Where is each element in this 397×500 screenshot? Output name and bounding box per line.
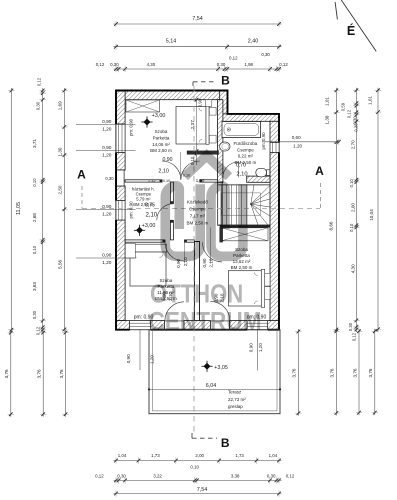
dim bottom openings row bbox=[114, 460, 282, 462]
svg-text:0,12: 0,12 bbox=[95, 473, 104, 478]
svg-text:3,38: 3,38 bbox=[231, 473, 240, 478]
svg-text:0,12: 0,12 bbox=[36, 326, 41, 335]
partition haztartasi east (lower) bbox=[170, 220, 173, 240]
double door top room/hall bbox=[162, 161, 181, 180]
svg-text:1,20: 1,20 bbox=[102, 212, 112, 218]
terrace door right arc bbox=[210, 301, 230, 321]
svg-text:0,12: 0,12 bbox=[347, 109, 352, 118]
svg-text:0,12: 0,12 bbox=[37, 77, 42, 86]
svg-text:1,69: 1,69 bbox=[58, 101, 63, 110]
svg-text:0,10: 0,10 bbox=[190, 464, 199, 469]
dim terrace right 3,76 bbox=[297, 329, 299, 416]
svg-text:1,73: 1,73 bbox=[151, 453, 160, 458]
svg-text:BM 2,50 m: BM 2,50 m bbox=[231, 265, 253, 270]
staircase bbox=[221, 185, 223, 225]
label double door bbox=[180, 152, 182, 176]
wall: bathroom west wall bbox=[218, 100, 223, 183]
toilet bbox=[267, 170, 270, 176]
svg-text:pm: 0,90: pm: 0,90 bbox=[129, 118, 134, 136]
svg-text:3,71: 3,71 bbox=[32, 139, 37, 148]
svg-text:0,75: 0,75 bbox=[145, 203, 155, 209]
dim left terrace 3,76 c bbox=[65, 330, 67, 417]
svg-text:2,68: 2,68 bbox=[32, 213, 37, 222]
svg-text:2,50: 2,50 bbox=[58, 185, 63, 194]
svg-text:0,90: 0,90 bbox=[202, 258, 207, 267]
svg-text:5,56: 5,56 bbox=[58, 259, 63, 268]
svg-text:A: A bbox=[77, 168, 86, 182]
dim left 11,05 bbox=[10, 88, 12, 332]
dim bottom 7,54 bbox=[114, 493, 282, 495]
svg-text:7,54: 7,54 bbox=[192, 16, 203, 22]
svg-text:2,10: 2,10 bbox=[158, 168, 169, 174]
svg-text:11,05: 11,05 bbox=[16, 202, 22, 215]
level marker +3,05 terrace bbox=[204, 363, 211, 370]
svg-text:14,06 m²: 14,06 m² bbox=[152, 142, 170, 147]
svg-text:0,90: 0,90 bbox=[102, 204, 112, 210]
dim right col 1,01/1,38/8,66 bbox=[335, 88, 337, 332]
level marker +3,00 haztartasi bbox=[136, 227, 143, 234]
svg-text:0,12: 0,12 bbox=[286, 473, 295, 478]
bed nook stub wall bbox=[187, 151, 219, 155]
svg-text:2,10: 2,10 bbox=[236, 171, 247, 177]
door bottom-right room bbox=[203, 242, 223, 262]
terrace door threshold left bbox=[165, 320, 185, 322]
bed bottom-right room bbox=[228, 271, 261, 306]
door bottom-left room bbox=[165, 242, 184, 261]
svg-text:6,22 m²: 6,22 m² bbox=[238, 154, 254, 159]
partition hall east / stair west wall bbox=[218, 182, 223, 225]
svg-text:2,00: 2,00 bbox=[195, 453, 204, 458]
dim bath window 0,60/1,20 bbox=[262, 141, 339, 143]
partition hall north (right seg) bbox=[200, 180, 218, 182]
svg-text:Terasz: Terasz bbox=[228, 390, 242, 395]
wall: left exterior wall segments bbox=[116, 91, 125, 125]
svg-text:0,70: 0,70 bbox=[236, 162, 246, 168]
below-wall window dim right bbox=[257, 330, 259, 371]
interior dim 2,37 bbox=[196, 100, 198, 165]
svg-text:0,30: 0,30 bbox=[348, 322, 353, 331]
dim right terrace 3,76 b bbox=[358, 329, 360, 415]
dim top 7,54 bbox=[114, 23, 282, 25]
svg-text:6,04: 6,04 bbox=[206, 383, 217, 389]
svg-text:3,63: 3,63 bbox=[32, 282, 37, 291]
svg-text:CENTRUM: CENTRUM bbox=[149, 308, 262, 337]
svg-text:0,90: 0,90 bbox=[248, 343, 253, 352]
svg-text:0,10: 0,10 bbox=[163, 179, 170, 183]
dim terrace 6,04 bbox=[149, 388, 280, 390]
svg-text:0,30: 0,30 bbox=[353, 116, 358, 125]
svg-text:1,20: 1,20 bbox=[102, 260, 112, 266]
svg-text:1,98: 1,98 bbox=[244, 62, 253, 67]
svg-text:3,76: 3,76 bbox=[330, 368, 335, 377]
dim right terrace 3,76 a bbox=[335, 329, 337, 416]
svg-text:2,37: 2,37 bbox=[190, 120, 195, 129]
window bottom wall left bbox=[130, 320, 151, 331]
wall: right exterior wall segments bbox=[270, 121, 279, 142]
below-wall window dim left bbox=[139, 330, 141, 370]
dim left windows chain bbox=[63, 88, 65, 332]
svg-text:0,59: 0,59 bbox=[341, 102, 346, 111]
dim left terrace 3,76 b bbox=[42, 330, 44, 417]
svg-text:0,90: 0,90 bbox=[198, 98, 203, 107]
svg-text:0,30: 0,30 bbox=[261, 52, 270, 57]
svg-text:0,90: 0,90 bbox=[102, 145, 112, 151]
svg-text:0,30: 0,30 bbox=[117, 473, 126, 478]
door haztartasi bbox=[157, 204, 174, 221]
svg-text:0,90: 0,90 bbox=[162, 157, 172, 163]
svg-text:+3,00: +3,00 bbox=[152, 113, 166, 119]
svg-text:5,14: 5,14 bbox=[166, 39, 177, 45]
svg-text:1,38: 1,38 bbox=[325, 115, 330, 124]
wardrobe top-left room bbox=[126, 100, 160, 112]
north arrow bbox=[341, 0, 376, 51]
svg-text:1,01: 1,01 bbox=[368, 96, 373, 105]
svg-text:3,22: 3,22 bbox=[153, 473, 162, 478]
svg-text:Parketta: Parketta bbox=[153, 135, 170, 140]
partition bottom-left room north bbox=[125, 240, 165, 242]
central wall between lower rooms bbox=[195, 242, 200, 321]
svg-text:2,42: 2,42 bbox=[148, 179, 155, 183]
svg-text:A: A bbox=[315, 164, 324, 178]
svg-text:2,40: 2,40 bbox=[248, 39, 259, 45]
nightstand top room bbox=[206, 100, 212, 107]
svg-text:22,73 m²: 22,73 m² bbox=[228, 397, 246, 402]
partition haztartasi east (upper) bbox=[170, 182, 173, 204]
svg-text:7,54: 7,54 bbox=[197, 487, 208, 493]
terrace door left arc bbox=[165, 302, 184, 321]
svg-text:0,90: 0,90 bbox=[102, 119, 112, 125]
svg-text:+3,00: +3,00 bbox=[142, 223, 156, 229]
svg-text:0,30: 0,30 bbox=[105, 176, 114, 181]
wall: top exterior wall bbox=[116, 91, 228, 100]
level marker +3,00 top room bbox=[144, 119, 151, 126]
svg-text:4,30: 4,30 bbox=[147, 62, 156, 67]
svg-text:É: É bbox=[347, 23, 355, 38]
svg-text:0,10: 0,10 bbox=[32, 178, 37, 187]
wall: notch step wall bbox=[220, 91, 228, 114]
window right wall (bathroom) bbox=[269, 143, 280, 153]
svg-text:0,12: 0,12 bbox=[352, 332, 357, 341]
svg-text:1,30: 1,30 bbox=[196, 178, 205, 183]
nightstand bottom-left bbox=[125, 244, 135, 259]
svg-text:0,60: 0,60 bbox=[292, 135, 301, 140]
svg-text:1,04: 1,04 bbox=[269, 453, 278, 458]
section line A (horizontal) bbox=[82, 208, 320, 210]
svg-text:Fürdőszoba: Fürdőszoba bbox=[234, 141, 258, 146]
svg-text:0,30: 0,30 bbox=[110, 62, 119, 67]
wardrobe bottom-right room bbox=[222, 228, 269, 241]
svg-text:1,20: 1,20 bbox=[258, 343, 263, 352]
svg-text:3,76: 3,76 bbox=[4, 369, 9, 378]
svg-text:0,10: 0,10 bbox=[32, 245, 37, 254]
dim right col 1,01/10,04 bbox=[377, 88, 379, 332]
svg-text:Szoba: Szoba bbox=[155, 129, 168, 134]
svg-text:pm: 0,90: pm: 0,90 bbox=[261, 132, 266, 150]
svg-text:2,10: 2,10 bbox=[145, 212, 157, 218]
svg-text:greslap: greslap bbox=[228, 404, 243, 409]
svg-text:1,20: 1,20 bbox=[293, 143, 302, 148]
svg-text:0,30: 0,30 bbox=[217, 62, 226, 67]
svg-text:0,30: 0,30 bbox=[267, 473, 276, 478]
window bottom wall right bbox=[247, 320, 267, 331]
svg-text:1,04: 1,04 bbox=[118, 453, 127, 458]
partition bottom-right room north bbox=[220, 225, 270, 227]
svg-text:1,73: 1,73 bbox=[235, 453, 244, 458]
wall: bathroom top exterior wall bbox=[220, 114, 279, 121]
terrace door threshold right bbox=[210, 320, 229, 322]
svg-text:10,04: 10,04 bbox=[369, 209, 374, 221]
svg-text:B: B bbox=[221, 74, 230, 88]
partition hall north (left seg) bbox=[125, 180, 162, 182]
svg-text:+3,05: +3,05 bbox=[214, 365, 228, 371]
washbasin bbox=[220, 142, 230, 151]
svg-text:1,30: 1,30 bbox=[58, 147, 63, 156]
svg-text:1,20: 1,20 bbox=[102, 127, 112, 133]
watermark text bbox=[149, 280, 262, 337]
svg-text:3,76: 3,76 bbox=[292, 368, 297, 377]
svg-text:OTTHON: OTTHON bbox=[150, 280, 243, 309]
left window dim lines bbox=[76, 124, 136, 126]
window left wall lower bbox=[115, 201, 126, 221]
dim right terrace 3,76 c bbox=[374, 329, 376, 415]
svg-text:1,20: 1,20 bbox=[102, 153, 112, 159]
dim top detail row bbox=[114, 68, 282, 70]
svg-text:0,12: 0,12 bbox=[229, 56, 238, 61]
svg-text:3,76: 3,76 bbox=[368, 368, 373, 377]
bathtub bbox=[222, 122, 261, 138]
outer contour bbox=[116, 91, 279, 330]
svg-text:BM 2,50 m: BM 2,50 m bbox=[150, 148, 172, 153]
svg-text:0,12: 0,12 bbox=[96, 62, 105, 67]
dim top 5,14 2,40 bbox=[114, 46, 282, 48]
window left wall upper bbox=[115, 124, 126, 153]
dim bottom detail row bbox=[114, 479, 282, 481]
section line B (vertical) bbox=[193, 86, 195, 433]
svg-text:0,90: 0,90 bbox=[102, 253, 112, 259]
svg-text:2,70: 2,70 bbox=[351, 140, 356, 149]
svg-text:Csempe: Csempe bbox=[237, 147, 254, 152]
dim right detail chain bbox=[355, 88, 357, 332]
svg-text:2,10: 2,10 bbox=[209, 258, 214, 267]
dim left terrace 3,76 a bbox=[10, 330, 12, 417]
svg-text:1,01: 1,01 bbox=[325, 97, 330, 106]
svg-text:0,30: 0,30 bbox=[32, 310, 37, 319]
svg-text:0,10: 0,10 bbox=[349, 179, 354, 188]
bed top-left room bbox=[176, 107, 206, 145]
dim left detail chain bbox=[42, 88, 44, 332]
svg-text:1,20: 1,20 bbox=[150, 355, 155, 364]
door bathroom bbox=[223, 162, 239, 178]
svg-text:3,76: 3,76 bbox=[352, 368, 357, 377]
svg-text:3,76: 3,76 bbox=[37, 369, 42, 378]
wall: bottom exterior wall segments bbox=[116, 321, 130, 330]
svg-text:3,76: 3,76 bbox=[59, 369, 64, 378]
svg-text:2,00: 2,00 bbox=[351, 203, 356, 212]
svg-text:0,30: 0,30 bbox=[354, 123, 359, 132]
wall: bathroom bottom wall solid part bbox=[247, 176, 270, 182]
svg-text:8,66: 8,66 bbox=[329, 221, 334, 230]
svg-text:0,10: 0,10 bbox=[349, 223, 354, 232]
terrace outline bbox=[149, 330, 280, 414]
svg-text:4,30: 4,30 bbox=[351, 264, 356, 273]
watermark OC logo bbox=[165, 156, 243, 257]
svg-text:0,90: 0,90 bbox=[126, 354, 131, 363]
svg-text:B: B bbox=[221, 436, 230, 450]
bed bottom-left room bbox=[129, 244, 167, 252]
svg-text:0,30: 0,30 bbox=[36, 101, 41, 110]
svg-text:0,12: 0,12 bbox=[279, 62, 288, 67]
